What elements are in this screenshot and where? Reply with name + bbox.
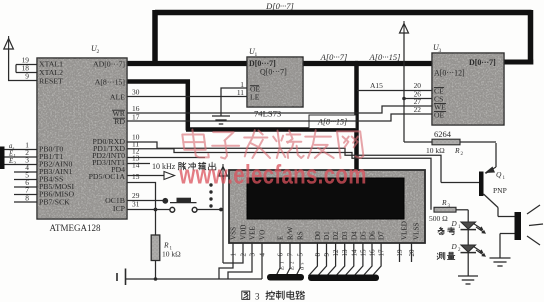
svg-text:VO: VO: [259, 230, 267, 240]
label 10 kHz pulse output: [152, 162, 216, 171]
svg-text:Q[0···7]: Q[0···7]: [260, 68, 287, 77]
node A[0..15] label: [369, 52, 401, 62]
svg-text:D1: D1: [323, 231, 331, 240]
svg-text:17: 17: [132, 113, 140, 122]
LCD pin labels rotated: [230, 221, 421, 240]
wire XTAL2: [16, 65, 37, 73]
svg-text:D: D: [451, 220, 458, 228]
caption figure 3 control circuit: [242, 291, 305, 302]
U2 right pin numbers: [132, 88, 140, 209]
wire PB6 stub: [14, 194, 37, 196]
IC U1 74LS573 latch body: [247, 47, 303, 107]
wire AD[0..7] bus U2 to U1: [127, 61, 249, 66]
wire A[8..15] bus from U2: [127, 80, 357, 131]
speaker: [498, 205, 543, 258]
svg-text:s: s: [301, 263, 306, 265]
power VCC arrow top-left: [4, 36, 14, 49]
svg-text:ICP: ICP: [113, 204, 126, 213]
svg-text:14: 14: [132, 161, 140, 170]
svg-text:RESET: RESET: [39, 77, 63, 86]
bus bar ribbon 2: [308, 275, 379, 282]
label measure: [437, 252, 455, 259]
svg-text:11: 11: [237, 88, 244, 97]
watermark big chinese characters: [182, 130, 363, 159]
U3 internal labels: [434, 58, 496, 120]
ground rail bottom left: [126, 277, 262, 281]
svg-text:VSS: VSS: [230, 227, 238, 240]
wire PD3/INT1 stub: [127, 163, 150, 165]
wire RESET pull-up: [9, 49, 37, 81]
U1 pin numbers 1 and 11: [237, 80, 244, 97]
svg-text:A[0···12]: A[0···12]: [434, 69, 465, 78]
svg-text:VLED: VLED: [401, 221, 409, 240]
label reference: [438, 227, 455, 235]
wires LCD pins 6 7 5 to bus bar: [276, 243, 300, 276]
resistor R2 10k pullup: [404, 139, 496, 157]
wire OC1B to button junction: [127, 198, 168, 204]
wire A[0..15] bus to U3: [355, 61, 433, 66]
U3 pin numbers: [414, 81, 422, 114]
wire WR to WE: [127, 106, 432, 113]
svg-text:10 kΩ: 10 kΩ: [426, 146, 445, 155]
svg-text:R: R: [454, 146, 460, 155]
svg-text:www.elecfans.com: www.elecfans.com: [178, 160, 366, 190]
svg-text:A[8···15]: A[8···15]: [95, 78, 126, 87]
svg-text:PD5/OC1A: PD5/OC1A: [89, 172, 126, 181]
wire E1 input to PB1: [5, 151, 38, 160]
svg-text:RS: RS: [297, 231, 305, 240]
IC U2 name label: [50, 223, 101, 233]
wire LCD pin2 VDD to VCC: [223, 243, 243, 263]
svg-text:3: 3: [439, 48, 442, 54]
wire ICP to button: [127, 208, 170, 212]
wire PB4 stub: [14, 179, 37, 181]
U2 left pin labels: [39, 60, 75, 207]
bus bar ribbon 1: [267, 274, 304, 281]
ground symbol left (rotated): [117, 269, 126, 286]
svg-text:A15: A15: [370, 81, 383, 90]
push button S1: [170, 198, 197, 212]
resistor R1 10k: [151, 235, 181, 279]
wire a_s input to PB0: [5, 143, 38, 152]
watermark url text: [178, 160, 366, 190]
power VCC arrow at LCD: [219, 164, 228, 176]
svg-text:AD[0···7]: AD[0···7]: [93, 60, 125, 69]
wire VCC vertical to VDD and button: [222, 176, 224, 263]
IC U3 6264 SRAM body: [432, 43, 504, 125]
svg-text:D7: D7: [378, 231, 386, 240]
svg-text:E: E: [277, 236, 285, 240]
LCD pin numbers: [230, 249, 417, 257]
svg-text:D5: D5: [359, 231, 367, 240]
wire LCD pin1 VSS to ground rail: [219, 243, 233, 279]
wire A[0..7] bus U1 to A-bus junction: [301, 61, 358, 66]
svg-text:A[8···15]: A[8···15]: [317, 118, 347, 127]
svg-text:D0: D0: [314, 231, 322, 240]
svg-text:3: 3: [255, 292, 260, 302]
svg-text:A[0···15]: A[0···15]: [369, 52, 401, 62]
ellipsis continuation dots: [209, 183, 212, 207]
svg-text:A[0···7]: A[0···7]: [320, 52, 348, 62]
wire PD2/INT0 stub: [127, 157, 205, 159]
wire PB5 stub: [14, 186, 37, 188]
wire D bus stub into U3: [504, 60, 533, 65]
node A[8..15] label box: [309, 115, 356, 129]
svg-text:D6: D6: [369, 231, 377, 240]
wire OE to ground: [221, 88, 247, 116]
wire LCD pin3 VEE: [228, 243, 252, 279]
svg-text:ATMEGA128: ATMEGA128: [50, 223, 101, 233]
wire LED chain to ground: [467, 253, 469, 276]
IC U1 name 74LS73: [254, 109, 281, 119]
wires LCD data pins to bus bar 2: [308, 243, 381, 276]
wire PD0/RXD long to transistor base: [127, 142, 441, 183]
LED D2 measure: [451, 230, 487, 257]
IC U3 name 6264: [434, 129, 452, 139]
svg-text:ALE: ALE: [110, 93, 125, 102]
svg-text:1: 1: [255, 52, 258, 58]
LED D1 reference: [451, 210, 487, 234]
LCD control pin net labels E1 E2 as: [279, 261, 306, 271]
svg-text:D2: D2: [332, 231, 340, 240]
svg-text:D4: D4: [350, 231, 358, 240]
wire RD to OE: [127, 114, 432, 121]
wire LCD pin19 VLED: [399, 243, 401, 262]
wire LCD pin4 VO: [261, 243, 263, 279]
wire PD1/TXD long to R3: [127, 149, 431, 210]
svg-text:10 kHz: 10 kHz: [152, 162, 176, 171]
wire VCC to CS and R2: [402, 33, 406, 142]
node D[0..7] label: [265, 1, 294, 11]
ground under LEDs: [458, 276, 478, 284]
svg-text:VDD: VDD: [240, 225, 248, 240]
ground under U1 OE: [212, 116, 230, 124]
IC U2 ATMEGA128 body: [37, 44, 127, 219]
wire D[0..7] bus top horizontal: [155, 10, 532, 16]
svg-text:15: 15: [132, 172, 140, 181]
svg-text:30: 30: [132, 88, 140, 97]
svg-text:LE: LE: [250, 93, 260, 102]
LCD module body: [229, 170, 425, 243]
wire PD4 10kHz pulse output: [127, 172, 175, 180]
connector left input bar: [0, 147, 5, 170]
svg-text:500 Ω: 500 Ω: [429, 214, 448, 223]
U2 right pin labels: [89, 60, 126, 214]
wire CS pin: [404, 98, 432, 100]
svg-text:2: 2: [97, 49, 100, 55]
wire ALE to LE: [127, 96, 247, 98]
wire D bus right vertical: [528, 10, 534, 65]
svg-text:Q: Q: [496, 170, 502, 179]
resistor R3 500ohm: [429, 198, 456, 223]
U2 left pin numbers: [22, 56, 30, 203]
LCD screen: [247, 178, 404, 219]
wire E2 input to PB2: [5, 158, 38, 167]
wire button to VCC rail: [197, 208, 223, 212]
node A[0..7] label: [320, 52, 348, 62]
wire PB3 stub: [14, 171, 37, 173]
wire A bus vertical down to LCD: [354, 61, 359, 171]
svg-text:D3: D3: [341, 231, 349, 240]
wire LCD pin20 VLSS: [411, 243, 413, 262]
svg-text:R/W: R/W: [287, 226, 295, 240]
transistor Q1 PNP: [441, 143, 507, 208]
wire XTAL1: [16, 64, 37, 66]
svg-text:R: R: [441, 198, 447, 207]
svg-text:6264: 6264: [434, 129, 452, 139]
svg-text:10 kΩ: 10 kΩ: [162, 250, 181, 259]
U1 internal labels: [249, 59, 287, 102]
wire A15 from A-bus to CE: [357, 81, 432, 91]
svg-text:PNP: PNP: [493, 186, 507, 195]
svg-text:VLSS: VLSS: [413, 223, 421, 240]
svg-text:VEE: VEE: [249, 226, 257, 240]
wire PB7 stub: [14, 201, 37, 203]
svg-text:D[0···7]: D[0···7]: [469, 58, 496, 67]
svg-text:R: R: [163, 241, 169, 250]
wire PD5/OC1A to R1: [127, 183, 156, 236]
power VCC arrow above U3: [400, 21, 409, 33]
svg-text:D: D: [451, 243, 458, 251]
svg-text:PB7/SCK: PB7/SCK: [39, 198, 70, 207]
wire D bus left vertical: [152, 10, 158, 66]
ground under speaker: [490, 258, 511, 266]
svg-text:D[0···7]: D[0···7]: [265, 1, 294, 11]
